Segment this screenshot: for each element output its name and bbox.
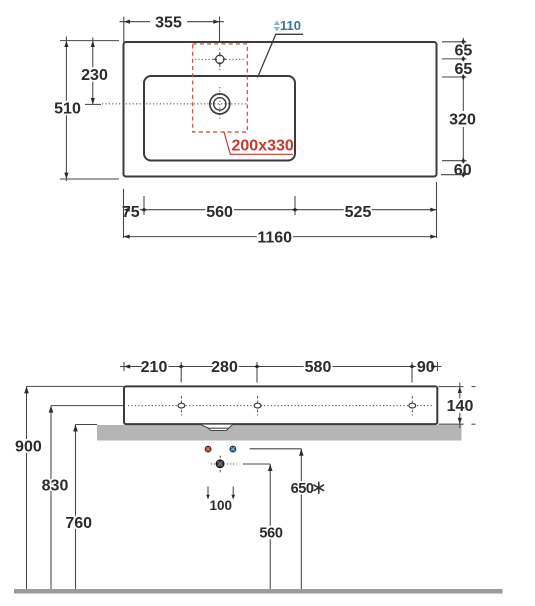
dim 230 tick and arrows (85, 103, 101, 105)
arrows 900 830 760 650 560 (24, 386, 29, 393)
dim 760 lines (76, 424, 98, 426)
svg-text:900: 900 (15, 439, 42, 456)
svg-text:760: 760 (65, 515, 92, 532)
dim 650 lines (250, 448, 302, 450)
basin bowl outline (144, 76, 295, 161)
bottom dim row2 line 1160 (124, 236, 437, 238)
svg-text:210: 210 (141, 359, 168, 376)
svg-text:560: 560 (259, 525, 283, 541)
svg-text:230: 230 (81, 67, 108, 84)
svg-text:320: 320 (449, 111, 476, 128)
front top dim ticks (124, 362, 437, 383)
basin front outline (124, 386, 437, 424)
svg-text:525: 525 (345, 204, 372, 221)
dim 900 lines (27, 385, 125, 387)
cold water valve blue (230, 446, 236, 452)
faucet hole centerlines (dotted) (195, 58, 246, 60)
dim 100 arrows (207, 487, 209, 497)
front top dim line (120, 366, 442, 368)
dim 510 ticks and arrows (60, 41, 119, 179)
svg-text:100: 100 (210, 498, 233, 513)
red leader line (224, 132, 293, 155)
waste outlet black dot (216, 460, 224, 468)
svg-text:110: 110 (280, 18, 301, 33)
right stacked arrows (461, 39, 465, 178)
front top dim arrows (124, 364, 437, 368)
svg-text:75: 75 (122, 204, 140, 221)
svg-text:560: 560 (206, 204, 233, 221)
drain boss trapezoid (201, 425, 233, 431)
dim 510 line (65, 37, 67, 182)
front centerline dotted (128, 405, 433, 407)
hole 3 (411, 396, 413, 416)
asterisk (314, 482, 324, 493)
blue updown arrow glyph (274, 21, 280, 32)
hole 1 (180, 396, 182, 416)
svg-text:1160: 1160 (257, 230, 292, 247)
cutout 200x330 red dashed rect (193, 44, 248, 132)
countertop outline (124, 42, 437, 177)
svg-text:830: 830 (42, 477, 69, 494)
dim 230 line (92, 38, 94, 105)
svg-text:650: 650 (291, 481, 314, 497)
right stacked extensions (441, 42, 467, 175)
bottom dim row1 line (124, 209, 437, 211)
svg-text:140: 140 (447, 398, 474, 415)
waste outlet dotted marks (211, 463, 217, 465)
dim 355 line (120, 21, 225, 23)
svg-text:510: 510 (54, 101, 81, 118)
svg-text:580: 580 (305, 359, 332, 376)
svg-text:280: 280 (211, 359, 238, 376)
dim 110 leader (258, 34, 304, 77)
hot water valve red (205, 446, 211, 452)
svg-text:355: 355 (155, 14, 182, 31)
right stacked dim line (462, 38, 464, 161)
dim 355 extensions and arrows (124, 17, 220, 43)
bottom row1 arrows (124, 208, 437, 212)
dim 140 extensions and arrows (439, 387, 476, 425)
faucet hole (216, 55, 224, 63)
svg-text:200x330: 200x330 (232, 138, 294, 155)
drain (210, 94, 230, 114)
bottom row2 arrows 1160 (124, 235, 130, 239)
hole 2 (257, 396, 259, 416)
dim 140 line (459, 383, 461, 429)
floor bar (14, 589, 503, 594)
bottom row1 ticks (124, 182, 437, 238)
drain centerlines (dotted) (102, 103, 247, 105)
dim 560 lines (243, 463, 270, 465)
dim 830 lines (51, 405, 124, 407)
wall band (97, 425, 462, 441)
